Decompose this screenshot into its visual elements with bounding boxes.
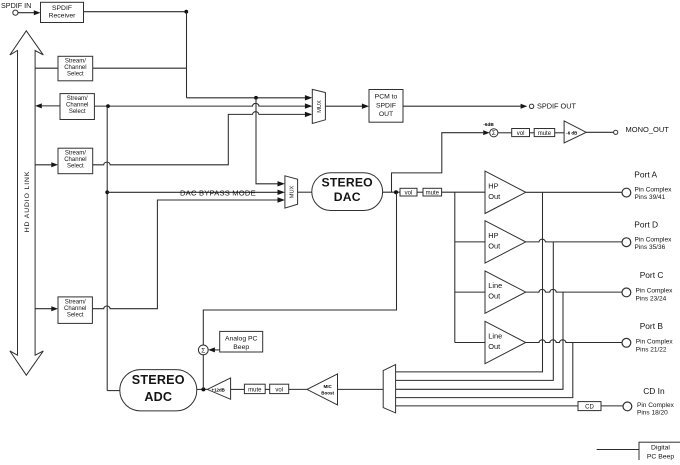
connector Port A pin complex bbox=[622, 188, 631, 197]
wire ADC net vertical bbox=[106, 106, 108, 391]
wire SPDIF net vertical drop bbox=[186, 12, 188, 98]
wire CD box to connector bbox=[601, 405, 623, 407]
svg-text:Select: Select bbox=[67, 72, 84, 78]
connector Port D pin complex bbox=[622, 238, 631, 247]
amp HP Out 1 (Port A) bbox=[485, 171, 526, 213]
wire Port A tap to record mux bbox=[396, 192, 543, 372]
block mono mute bbox=[534, 129, 555, 137]
wire ADC net to MUX2 input 2 bbox=[107, 190, 285, 195]
connector CD In pin complex bbox=[623, 402, 632, 411]
wire select 1 output bbox=[93, 67, 187, 69]
wire Port A output bbox=[526, 191, 622, 193]
wire Port C output bbox=[526, 289, 622, 292]
wire MUX2 to DAC bbox=[298, 191, 312, 193]
wire record vol to mic boost bbox=[289, 388, 307, 390]
junction dot ADC input bbox=[201, 387, 205, 391]
svg-text:HP: HP bbox=[488, 181, 498, 190]
svg-text:mute: mute bbox=[426, 191, 440, 197]
block DAC vol bbox=[400, 188, 417, 196]
svg-text:MUX: MUX bbox=[289, 186, 295, 199]
block Stream/Channel Select 1 bbox=[58, 56, 93, 81]
junction dot ADC record net bbox=[106, 104, 110, 108]
wire feed to HP Out 2 bbox=[455, 241, 485, 243]
wire SPDIF IN to receiver bbox=[18, 10, 41, 15]
junction dot SPDIF net bbox=[184, 10, 188, 14]
svg-text:Out: Out bbox=[488, 192, 500, 201]
svg-text:Pins 23/24: Pins 23/24 bbox=[636, 295, 667, 302]
svg-text:CD: CD bbox=[585, 404, 594, 410]
wire amp feed vertical bbox=[454, 192, 456, 342]
wire to SPDIF OUT connector bbox=[403, 104, 527, 109]
svg-text:vol: vol bbox=[517, 131, 525, 137]
wire MUX1 to PCM-to-SPDIF bbox=[325, 104, 369, 109]
amp Line Out 1 (Port C) bbox=[485, 271, 526, 313]
svg-text:Line: Line bbox=[488, 332, 502, 341]
wire DAC mute to amps bbox=[442, 191, 485, 193]
mux record select bbox=[383, 365, 395, 413]
wire gain to record mute bbox=[231, 388, 245, 390]
svg-text:Select: Select bbox=[67, 313, 84, 319]
block DAC mute bbox=[423, 188, 442, 196]
block SPDIF Receiver bbox=[41, 2, 84, 22]
wire select 2 to link bbox=[35, 103, 60, 108]
wire link to select 1 bbox=[35, 67, 58, 69]
HD AUDIO LINK double arrow bbox=[10, 31, 43, 375]
svg-text:-6dB: -6dB bbox=[483, 122, 494, 127]
svg-text:vol: vol bbox=[275, 387, 283, 393]
svg-text:Stream/: Stream/ bbox=[65, 151, 86, 157]
mux MUX2 (DAC source select) bbox=[285, 176, 298, 208]
wire mono vol to mute bbox=[530, 132, 535, 134]
svg-text:Pin Complex: Pin Complex bbox=[636, 288, 674, 295]
svg-text:-6 dB: -6 dB bbox=[566, 130, 577, 135]
block Digital PC Beep bbox=[639, 442, 680, 461]
node Port B label bbox=[636, 321, 674, 354]
svg-text:Channel: Channel bbox=[64, 65, 86, 71]
svg-text:Pin Complex: Pin Complex bbox=[635, 236, 673, 243]
block record vol bbox=[270, 384, 289, 393]
block PCM to SPDIF OUT bbox=[369, 90, 403, 123]
wire record mux to mic boost bbox=[338, 388, 384, 390]
block Analog PC Beep bbox=[220, 331, 263, 352]
svg-text:Out: Out bbox=[488, 242, 500, 251]
svg-text:Port C: Port C bbox=[640, 270, 664, 280]
block STEREO DAC bbox=[312, 173, 383, 211]
svg-text:Analog PC: Analog PC bbox=[225, 336, 258, 343]
svg-text:Stream/: Stream/ bbox=[65, 300, 86, 306]
svg-text:SPDIF: SPDIF bbox=[376, 102, 396, 109]
svg-text:Out: Out bbox=[488, 292, 500, 301]
summer mono sum bbox=[490, 129, 498, 138]
svg-text:HD AUDIO LINK: HD AUDIO LINK bbox=[24, 171, 31, 233]
svg-text:Port D: Port D bbox=[634, 220, 658, 230]
svg-text:Port B: Port B bbox=[640, 321, 664, 331]
junction dot ADC to MUX2 branch bbox=[105, 190, 109, 194]
wire DAC out to mono sum bbox=[392, 133, 484, 193]
junction dot DAC output bbox=[394, 190, 398, 194]
connector Port B pin complex bbox=[622, 338, 631, 347]
block mono vol bbox=[512, 129, 530, 137]
wire into ADC bbox=[197, 388, 208, 390]
amp HP Out 2 (Port D) bbox=[485, 221, 526, 263]
svg-text:Σ: Σ bbox=[201, 348, 205, 355]
svg-text:Pin Complex: Pin Complex bbox=[637, 402, 675, 409]
block Stream/Channel Select 2 bbox=[60, 94, 94, 120]
svg-text:Pin Complex: Pin Complex bbox=[635, 186, 673, 193]
svg-text:Beep: Beep bbox=[233, 344, 249, 351]
svg-text:DAC BYPASS MODE: DAC BYPASS MODE bbox=[180, 189, 256, 198]
wire Port B tap to record mux bbox=[396, 343, 573, 398]
svg-text:DAC: DAC bbox=[334, 190, 361, 204]
mux MUX1 (SPDIF select) bbox=[312, 89, 325, 123]
block CD attenuator bbox=[578, 402, 601, 411]
wire digital beep input bbox=[597, 449, 639, 451]
wire select 4 DAC bypass to MUX2 input 3 bbox=[92, 197, 285, 308]
svg-text:Boost: Boost bbox=[321, 391, 334, 396]
node Port A label bbox=[634, 170, 672, 202]
wire feed to Line Out 1 bbox=[455, 291, 485, 293]
svg-text:STEREO: STEREO bbox=[132, 373, 185, 387]
node CD In label bbox=[637, 386, 675, 417]
svg-text:ADC: ADC bbox=[144, 390, 172, 404]
svg-text:CD In: CD In bbox=[643, 386, 665, 396]
svg-text:mute: mute bbox=[538, 131, 552, 137]
svg-text:PCM to: PCM to bbox=[375, 94, 398, 101]
svg-text:Channel: Channel bbox=[64, 306, 86, 312]
wire beep box to sum bbox=[208, 347, 220, 352]
svg-text:vol: vol bbox=[405, 191, 413, 197]
svg-text:mute: mute bbox=[248, 387, 262, 393]
wire SPDIF net down to MUX2 input 1 bbox=[256, 98, 285, 187]
arrow into mono sum bbox=[483, 130, 490, 135]
wire Port B output bbox=[526, 340, 622, 343]
svg-text:+12dB: +12dB bbox=[212, 387, 225, 392]
svg-text:STEREO: STEREO bbox=[322, 176, 373, 190]
svg-text:Digital: Digital bbox=[651, 445, 670, 452]
wire mute to mono amp bbox=[555, 132, 564, 134]
wire feed to Line Out 2 bbox=[455, 342, 485, 344]
amp record gain +12dB bbox=[207, 378, 230, 399]
svg-text:Σ: Σ bbox=[492, 130, 496, 137]
block STEREO ADC bbox=[120, 370, 197, 411]
amp MIC Boost bbox=[307, 374, 338, 405]
wire CD In to record mux bbox=[396, 405, 578, 407]
wire select 3 to MUX1 input 3 bbox=[93, 112, 313, 165]
block Stream/Channel Select 3 bbox=[58, 148, 93, 174]
svg-text:Pin Complex: Pin Complex bbox=[636, 339, 674, 346]
node Port D label bbox=[634, 220, 672, 252]
junction dot SPDIF to DAC branch bbox=[254, 96, 258, 100]
wire DAC output bbox=[383, 191, 400, 193]
wire ADC net into ADC bbox=[107, 390, 121, 392]
svg-text:Port A: Port A bbox=[634, 170, 657, 180]
wire DAC vol to mute bbox=[417, 191, 423, 193]
connector Port C pin complex bbox=[622, 288, 631, 297]
wire sum to ADC input bbox=[202, 355, 204, 390]
svg-text:Select: Select bbox=[67, 164, 84, 170]
wire Port C tap to record mux bbox=[396, 292, 563, 389]
amp Line Out 2 (Port B) bbox=[485, 321, 526, 363]
amp mono -6dB bbox=[564, 121, 586, 143]
connector MONO_OUT bbox=[614, 130, 618, 134]
svg-text:MUX: MUX bbox=[317, 100, 323, 113]
wire link to select 3 bbox=[35, 162, 58, 167]
svg-text:Receiver: Receiver bbox=[49, 13, 77, 20]
svg-text:Pins 18/20: Pins 18/20 bbox=[637, 410, 668, 417]
svg-text:SPDIF: SPDIF bbox=[52, 5, 72, 12]
svg-text:OUT: OUT bbox=[379, 111, 393, 118]
svg-text:MONO_OUT: MONO_OUT bbox=[626, 125, 670, 134]
block record mute bbox=[244, 384, 265, 393]
wire mono amp to connector bbox=[586, 131, 613, 133]
summer analog beep sum bbox=[198, 345, 208, 355]
svg-text:Out: Out bbox=[488, 342, 500, 351]
node Port C label bbox=[636, 270, 674, 302]
svg-text:Channel: Channel bbox=[64, 157, 86, 163]
connector SPDIF IN bbox=[13, 10, 18, 15]
svg-text:Stream/: Stream/ bbox=[65, 59, 86, 65]
svg-text:Pins 21/22: Pins 21/22 bbox=[636, 346, 667, 353]
svg-text:Stream/: Stream/ bbox=[67, 96, 88, 102]
svg-text:Select: Select bbox=[69, 109, 86, 115]
svg-text:Pins 39/41: Pins 39/41 bbox=[635, 194, 666, 201]
wire Port D tap to record mux bbox=[396, 242, 554, 381]
svg-text:Pins 35/36: Pins 35/36 bbox=[635, 244, 666, 251]
svg-text:MIC: MIC bbox=[323, 384, 332, 389]
wire Port D output bbox=[526, 239, 622, 242]
svg-text:PC Beep: PC Beep bbox=[647, 453, 674, 460]
connector SPDIF OUT bbox=[529, 104, 533, 108]
svg-text:SPDIF IN: SPDIF IN bbox=[1, 1, 31, 10]
wire select 2 to MUX1 input 2 bbox=[94, 103, 312, 108]
block Stream/Channel Select 4 bbox=[58, 297, 92, 324]
wire record mute to vol bbox=[265, 388, 270, 390]
wire SPDIF receiver output bbox=[84, 11, 187, 13]
svg-text:Channel: Channel bbox=[66, 103, 88, 109]
svg-text:HP: HP bbox=[488, 231, 498, 240]
svg-text:Line: Line bbox=[488, 281, 502, 290]
wire DAC loopback down bbox=[203, 192, 396, 345]
wire sum to mono vol bbox=[498, 132, 512, 134]
wire link to select 4 bbox=[35, 306, 58, 311]
svg-text:SPDIF OUT: SPDIF OUT bbox=[537, 102, 576, 111]
wire SPDIF net to MUX1 input 1 bbox=[187, 95, 313, 100]
